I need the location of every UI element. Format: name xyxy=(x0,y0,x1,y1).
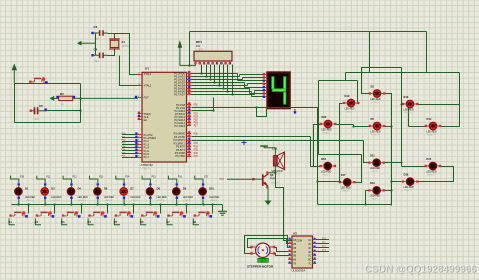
svg-text:D13: D13 xyxy=(404,95,409,99)
svg-text:<TEXT>: <TEXT> xyxy=(341,190,350,193)
wire matrix bottom xyxy=(318,204,392,206)
push button K6 xyxy=(141,211,160,217)
svg-text:5C: 5C xyxy=(308,256,311,258)
svg-text:D15: D15 xyxy=(426,157,431,161)
wire net label K5 xyxy=(114,218,120,224)
svg-text:LED-RED: LED-RED xyxy=(370,168,380,170)
svg-text:P13: P13 xyxy=(322,250,327,252)
wire net label row 4 xyxy=(90,176,104,184)
svg-text:P12: P12 xyxy=(322,246,327,248)
wire matrix drop B xyxy=(369,32,371,73)
wire motor B xyxy=(245,236,289,254)
wire button drop 4 xyxy=(107,205,109,214)
wire matrix right xyxy=(459,73,461,127)
svg-text:AT89C52: AT89C52 xyxy=(141,163,154,167)
resistor R2 xyxy=(56,92,75,106)
svg-text:ULN2003A: ULN2003A xyxy=(292,269,306,273)
wire X1 top xyxy=(108,34,115,39)
capacitor C5 xyxy=(30,104,47,121)
wire LED drop xyxy=(97,183,99,205)
svg-text:K3: K3 xyxy=(61,220,65,224)
svg-text:K6: K6 xyxy=(140,220,144,224)
wire net label K3 xyxy=(61,218,67,224)
svg-text:<TEXT>: <TEXT> xyxy=(141,167,151,170)
svg-text:RST: RST xyxy=(144,95,150,99)
svg-text:4C: 4C xyxy=(308,252,311,254)
wire net label row 6 xyxy=(142,176,156,184)
svg-text:D6: D6 xyxy=(104,187,108,191)
wire XTAL2 net xyxy=(120,56,143,86)
wire net label row 7 xyxy=(168,176,182,184)
LED D13 xyxy=(402,95,419,115)
wire net label K8 xyxy=(193,218,199,224)
svg-text:P3.7/RD: P3.7/RD xyxy=(175,154,185,158)
svg-text:P10: P10 xyxy=(20,177,25,179)
svg-text:D16: D16 xyxy=(404,172,409,176)
svg-text:30pF: 30pF xyxy=(94,60,100,63)
svg-text:LED-RED: LED-RED xyxy=(104,197,114,199)
wire D20 left xyxy=(314,125,321,167)
push button K4 xyxy=(88,211,107,217)
svg-text:2B: 2B xyxy=(293,244,296,246)
LED D16 xyxy=(402,172,419,192)
net label Q1 base xyxy=(220,178,254,181)
wire net label row 8 xyxy=(195,176,209,184)
svg-text:K8: K8 xyxy=(193,220,197,224)
U1 P1 wires and labels xyxy=(122,132,138,157)
wire net label row 5 xyxy=(116,176,130,184)
LED D5 xyxy=(369,117,386,137)
power flag VCC (RP1) xyxy=(178,40,196,65)
wire D14 left xyxy=(409,126,426,128)
wire D12 left drop xyxy=(366,191,369,205)
LED D6 xyxy=(94,187,115,202)
net labels P20-P27 xyxy=(194,104,199,128)
svg-text:K5: K5 xyxy=(114,220,118,224)
svg-text:30pF: 30pF xyxy=(94,38,100,41)
transistor Q1 PNP xyxy=(252,172,279,189)
svg-text:P1.7: P1.7 xyxy=(144,155,150,159)
wire D15 left xyxy=(402,166,427,168)
wire D13 left stub xyxy=(402,104,403,106)
wire C5 to RST leg xyxy=(47,110,81,112)
svg-text:LED-RED: LED-RED xyxy=(321,171,331,173)
svg-text:LED-RED: LED-RED xyxy=(25,197,35,199)
svg-text:P10: P10 xyxy=(322,239,327,241)
svg-text:K7: K7 xyxy=(166,220,170,224)
svg-text:LED-RED: LED-RED xyxy=(426,171,436,173)
wire button drop 7 xyxy=(186,205,188,214)
wire LED drop xyxy=(202,183,204,205)
crystal X1 xyxy=(109,39,129,49)
ground bar (speaker) xyxy=(260,145,275,148)
wire button drop 6 xyxy=(160,205,162,214)
wire button drop 2 xyxy=(54,205,56,214)
svg-text:P14: P14 xyxy=(125,177,130,179)
svg-text:STEPPER-MOTOR: STEPPER-MOTOR xyxy=(247,264,274,268)
wire junction dots xyxy=(17,64,402,205)
wire D19 left drop xyxy=(340,104,343,182)
ground flag (crystal) xyxy=(77,41,96,46)
svg-text:CSDN @QQ1928499966: CSDN @QQ1928499966 xyxy=(364,264,476,275)
svg-text:D19: D19 xyxy=(345,94,350,98)
svg-text:<TEXT>: <TEXT> xyxy=(345,110,354,113)
LED D7 xyxy=(120,187,141,202)
wire P2.1 long xyxy=(192,107,318,109)
svg-text:<TEXT>: <TEXT> xyxy=(270,182,279,185)
svg-text:D18: D18 xyxy=(321,157,326,161)
svg-text:<TEXT>: <TEXT> xyxy=(371,198,380,201)
svg-text:<TEXT>: <TEXT> xyxy=(210,199,219,202)
svg-text:<TEXT>: <TEXT> xyxy=(371,101,380,104)
wire reset right leg xyxy=(80,84,82,123)
stepper motor M1 xyxy=(247,243,275,268)
7-segment display (shows 4) xyxy=(263,72,296,114)
svg-text:D8: D8 xyxy=(157,187,161,191)
svg-text:<TEXT>: <TEXT> xyxy=(322,173,331,176)
svg-text:4B: 4B xyxy=(293,252,296,254)
svg-text:R2: R2 xyxy=(60,92,64,96)
svg-text:K1: K1 xyxy=(9,220,13,224)
svg-text:D3: D3 xyxy=(51,187,55,191)
wire jog xyxy=(345,73,347,81)
svg-text:<TEXT>: <TEXT> xyxy=(26,199,35,202)
svg-text:<TEXT>: <TEXT> xyxy=(157,199,166,202)
svg-text:X1: X1 xyxy=(122,40,126,44)
svg-text:P15: P15 xyxy=(152,177,157,179)
svg-text:LED-RED: LED-RED xyxy=(427,131,437,133)
wire cap common xyxy=(95,34,97,56)
IC U2 ULN2003A xyxy=(288,232,316,273)
svg-text:P0.7/AD7: P0.7/AD7 xyxy=(174,93,185,97)
wire D2 right column xyxy=(385,94,392,206)
wire D15-D16 xyxy=(418,167,454,182)
push button K8 xyxy=(194,211,213,217)
svg-text:7C: 7C xyxy=(308,264,311,266)
svg-text:12MHz: 12MHz xyxy=(122,46,130,48)
wire net label row 1 xyxy=(11,176,25,184)
svg-text:<TEXT>: <TEXT> xyxy=(427,133,436,136)
svg-text:RP1: RP1 xyxy=(196,40,202,44)
push button K-RST xyxy=(29,77,48,83)
wire D13 right xyxy=(418,104,460,106)
svg-text:P30: P30 xyxy=(194,133,199,136)
svg-text:<TEXT>: <TEXT> xyxy=(52,199,61,202)
svg-text:22uF: 22uF xyxy=(34,118,40,121)
LED D1 xyxy=(15,187,36,202)
U2 right wires xyxy=(316,240,329,252)
wire LED drop xyxy=(44,183,46,205)
svg-text:D17: D17 xyxy=(341,173,346,177)
svg-text:P20: P20 xyxy=(194,104,199,107)
wire net label row 3 xyxy=(63,176,77,184)
wire D5 left xyxy=(354,125,370,127)
wire D19 right riser xyxy=(357,81,359,104)
wire XTAL1 net xyxy=(115,34,143,75)
svg-text:P17: P17 xyxy=(204,177,209,179)
wire bus P0 to RP1 and 7seg xyxy=(191,65,263,97)
push button K5 xyxy=(115,211,134,217)
wire D5 right xyxy=(385,126,392,128)
wire motor C xyxy=(275,248,289,252)
wire VCC top rail xyxy=(190,31,427,33)
svg-text:PNP: PNP xyxy=(270,178,275,181)
wire D20 right xyxy=(336,124,354,126)
wire D2 left xyxy=(362,68,402,94)
net labels P10-P13 xyxy=(322,239,327,253)
svg-text:D7: D7 xyxy=(130,187,134,191)
wire net label K2 xyxy=(35,218,41,224)
U1 right pins xyxy=(174,71,191,158)
svg-text:COM: COM xyxy=(297,240,302,242)
wire mid xyxy=(319,154,362,156)
resistor pack RP1 xyxy=(194,40,232,64)
svg-text:LED-RED: LED-RED xyxy=(209,197,219,199)
svg-text:P12: P12 xyxy=(73,177,78,179)
watermark xyxy=(364,264,477,276)
svg-text:LED-RED: LED-RED xyxy=(371,99,381,101)
svg-text:<TEXT>: <TEXT> xyxy=(427,173,436,176)
push button K7 xyxy=(167,211,186,217)
power flag (R2 left) xyxy=(50,96,59,101)
wire RST net xyxy=(73,96,138,99)
wire motor D xyxy=(275,254,289,256)
svg-text:LED-RED: LED-RED xyxy=(183,197,193,199)
svg-text:D5: D5 xyxy=(371,117,375,121)
power flag VCC (reset) xyxy=(12,63,17,83)
svg-text:LED-RED: LED-RED xyxy=(130,197,140,199)
svg-text:P16: P16 xyxy=(178,177,183,179)
wire D11 right xyxy=(385,162,402,164)
svg-text:C3: C3 xyxy=(94,25,98,29)
svg-text:<TEXT>: <TEXT> xyxy=(131,199,140,202)
svg-text:LED-RED: LED-RED xyxy=(51,197,61,199)
svg-text:C5: C5 xyxy=(39,104,43,108)
origin marker xyxy=(242,140,247,145)
wire LED drop xyxy=(123,183,125,205)
wire X1 bottom xyxy=(108,50,115,56)
wire net label K4 xyxy=(88,218,94,224)
svg-text:3C: 3C xyxy=(308,248,311,250)
LED D4 xyxy=(67,187,88,202)
wire 7seg common xyxy=(257,108,267,117)
wire D11 left xyxy=(364,141,369,163)
svg-text:<TEXT>: <TEXT> xyxy=(183,199,192,202)
svg-text:K2: K2 xyxy=(35,220,39,224)
svg-text:D4: D4 xyxy=(78,187,82,191)
capacitor C3 xyxy=(91,25,107,41)
wire net label K7 xyxy=(166,218,172,224)
U1 left pins xyxy=(138,72,157,159)
svg-text:Q1: Q1 xyxy=(270,173,274,177)
wire D16 left xyxy=(392,181,402,183)
svg-text:D2: D2 xyxy=(371,84,375,88)
svg-text:1C: 1C xyxy=(308,240,311,242)
wire net label row 2 xyxy=(37,176,51,184)
svg-text:<TEXT>: <TEXT> xyxy=(105,199,114,202)
svg-text:5B: 5B xyxy=(293,256,296,258)
svg-text:<TEXT>: <TEXT> xyxy=(404,111,413,114)
wire bottom bus xyxy=(12,204,223,206)
svg-text:D11: D11 xyxy=(370,154,375,158)
wire D17 left xyxy=(318,181,340,183)
wire LED drop xyxy=(149,183,151,205)
svg-text:D14: D14 xyxy=(427,117,432,121)
wire button drop 5 xyxy=(133,205,135,214)
push button K1 xyxy=(9,211,28,217)
svg-text:P37: P37 xyxy=(194,155,199,158)
svg-text:LED-RED: LED-RED xyxy=(404,187,414,189)
LED D19 xyxy=(343,94,360,114)
wire D14 left riser xyxy=(408,105,410,127)
svg-text:6B: 6B xyxy=(293,260,296,262)
svg-text:D1: D1 xyxy=(25,187,29,191)
wire net label K1 xyxy=(9,218,15,224)
svg-text:<TEXT>: <TEXT> xyxy=(78,199,87,202)
push button K3 xyxy=(62,211,81,217)
wire button drop 3 xyxy=(81,205,83,214)
wire P3.1 long xyxy=(192,136,311,138)
svg-text:<TEXT>: <TEXT> xyxy=(371,133,380,136)
wire net label K6 xyxy=(140,218,146,224)
wire P2.2 xyxy=(192,110,214,112)
svg-text:U2: U2 xyxy=(293,232,297,236)
svg-text:LED-RED: LED-RED xyxy=(157,197,167,199)
LED D14 xyxy=(425,117,442,137)
LED D10 xyxy=(199,187,220,202)
svg-text:P13: P13 xyxy=(99,177,104,179)
op-amp U1 AT89C52 MCU xyxy=(141,66,187,170)
LED D11 xyxy=(368,154,385,174)
svg-text:D9: D9 xyxy=(183,187,187,191)
svg-text:LED-RED: LED-RED xyxy=(322,129,332,131)
svg-text:K4: K4 xyxy=(88,220,92,224)
LED D3 xyxy=(41,187,62,202)
svg-text:D12: D12 xyxy=(370,181,375,185)
wire P2.2 riser xyxy=(213,98,215,111)
wire LED drop xyxy=(176,183,178,205)
svg-text:<TEXT>: <TEXT> xyxy=(322,131,331,134)
wire D14 right xyxy=(441,126,460,128)
ground arrow (Q1) xyxy=(265,186,272,205)
wire motor A xyxy=(248,239,289,248)
LED D17 xyxy=(339,173,356,193)
svg-text:D10: D10 xyxy=(209,187,214,191)
svg-text:6C: 6C xyxy=(308,260,311,262)
svg-text:XTAL2: XTAL2 xyxy=(144,84,152,88)
wire LED drop xyxy=(18,183,20,205)
svg-text:P33: P33 xyxy=(220,178,225,181)
svg-text:LED-RED: LED-RED xyxy=(404,109,414,111)
svg-text:LED-RED: LED-RED xyxy=(345,108,355,110)
svg-text:LED-RED: LED-RED xyxy=(371,131,381,133)
svg-text:36.0: 36.0 xyxy=(260,259,266,263)
ground (bottom bus) xyxy=(218,205,227,216)
LED D9 xyxy=(173,187,194,202)
wire display-matrix riser xyxy=(317,108,319,205)
svg-text:<TEXT>: <TEXT> xyxy=(272,173,281,176)
svg-text:XTAL1: XTAL1 xyxy=(144,72,152,76)
wire D12 right xyxy=(385,190,392,192)
LED D2 xyxy=(369,84,386,104)
wire D17 right xyxy=(356,155,362,183)
svg-text:<TEXT>: <TEXT> xyxy=(371,170,380,173)
wire matrix drop A xyxy=(426,32,428,73)
capacitor C4 xyxy=(91,47,107,63)
svg-text:3B: 3B xyxy=(293,248,296,250)
push button K2 xyxy=(36,211,55,217)
LED D15 xyxy=(425,157,442,177)
wire D18 drop xyxy=(310,137,312,167)
svg-text:U1: U1 xyxy=(145,66,149,70)
LED D12 xyxy=(368,181,385,201)
svg-text:EA: EA xyxy=(144,118,148,122)
wire D19 top xyxy=(319,80,358,82)
net labels P30-P37 xyxy=(194,133,199,159)
svg-text:2C: 2C xyxy=(308,244,311,246)
svg-text:D20: D20 xyxy=(322,115,327,119)
svg-text:P27: P27 xyxy=(194,125,199,128)
wire reset top xyxy=(15,83,81,85)
wire speaker to U2 COM xyxy=(276,173,293,241)
wire matrix top xyxy=(346,72,460,74)
wire D18 left xyxy=(311,166,320,168)
svg-text:LED-RED: LED-RED xyxy=(370,196,380,198)
svg-text:LED-RED: LED-RED xyxy=(341,188,351,190)
LED D20 xyxy=(320,115,337,135)
svg-text:P2.7/A15: P2.7/A15 xyxy=(175,124,186,128)
svg-text:<TEXT>: <TEXT> xyxy=(404,189,413,192)
wire D13 column xyxy=(401,68,403,167)
wire VCC riser xyxy=(189,32,191,66)
wire reset ground loop xyxy=(15,84,81,123)
LED D18 xyxy=(319,157,336,177)
wire matrix left riser xyxy=(318,81,320,155)
wire LED drop xyxy=(70,183,72,205)
svg-text:LED-RED: LED-RED xyxy=(78,197,88,199)
wire button drop 1 xyxy=(28,205,30,214)
wire P3.2 long xyxy=(192,140,364,142)
svg-text:7B: 7B xyxy=(293,264,296,266)
speaker LS1 xyxy=(271,147,284,177)
LED D8 xyxy=(146,187,167,202)
wire button drop 8 xyxy=(212,205,214,214)
